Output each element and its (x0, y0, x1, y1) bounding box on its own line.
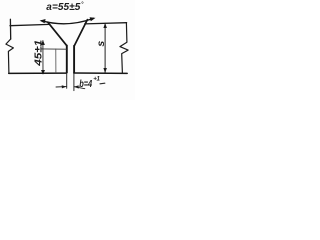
angle arc right arrowhead (90, 17, 96, 21)
svg-text:s: s (95, 41, 107, 47)
gap dimension left arrowhead (62, 85, 67, 88)
thickness dimension line s (104, 23, 106, 73)
root land extension line (horizontal, to left dimension) (42, 48, 67, 50)
right bevel face with overshoot above surface (74, 20, 87, 46)
s bottom arrowhead (103, 68, 107, 73)
angle arc left arrowhead (40, 19, 46, 23)
right plate top edge (85, 23, 127, 24)
svg-text:b=4: b=4 (79, 78, 92, 90)
left dimension top arrowhead (41, 40, 45, 45)
left dimension line (root land height) (42, 41, 44, 74)
gap dimension line left segment (56, 86, 66, 88)
s top arrowhead (103, 23, 107, 28)
thin auxiliary vertical line left of root (55, 49, 57, 73)
right root face (73, 45, 75, 73)
left root face extension line below plate (66, 73, 68, 88)
angle dimension arc with arrows (42, 18, 94, 23)
left bevel face (48, 22, 67, 45)
stray ink dash right of gap label (100, 82, 105, 85)
left plate top edge with corner tick (10, 19, 50, 39)
right edge break line (zigzag) (120, 23, 128, 74)
gap dimension line right segment (74, 87, 85, 89)
svg-text:a=55±5: a=55±5 (46, 2, 80, 13)
left edge break line (zigzag) (6, 39, 13, 73)
svg-text:45±1: 45±1 (33, 40, 45, 67)
right plate bottom edge (74, 72, 127, 74)
gap dimension right arrowhead (74, 85, 79, 88)
left dimension bottom arrowhead (41, 70, 45, 75)
right root face extension line below plate (73, 73, 75, 91)
background (0, 0, 135, 100)
left root face (66, 45, 68, 73)
svg-text:+1: +1 (93, 75, 100, 82)
left plate bottom edge (9, 72, 66, 74)
